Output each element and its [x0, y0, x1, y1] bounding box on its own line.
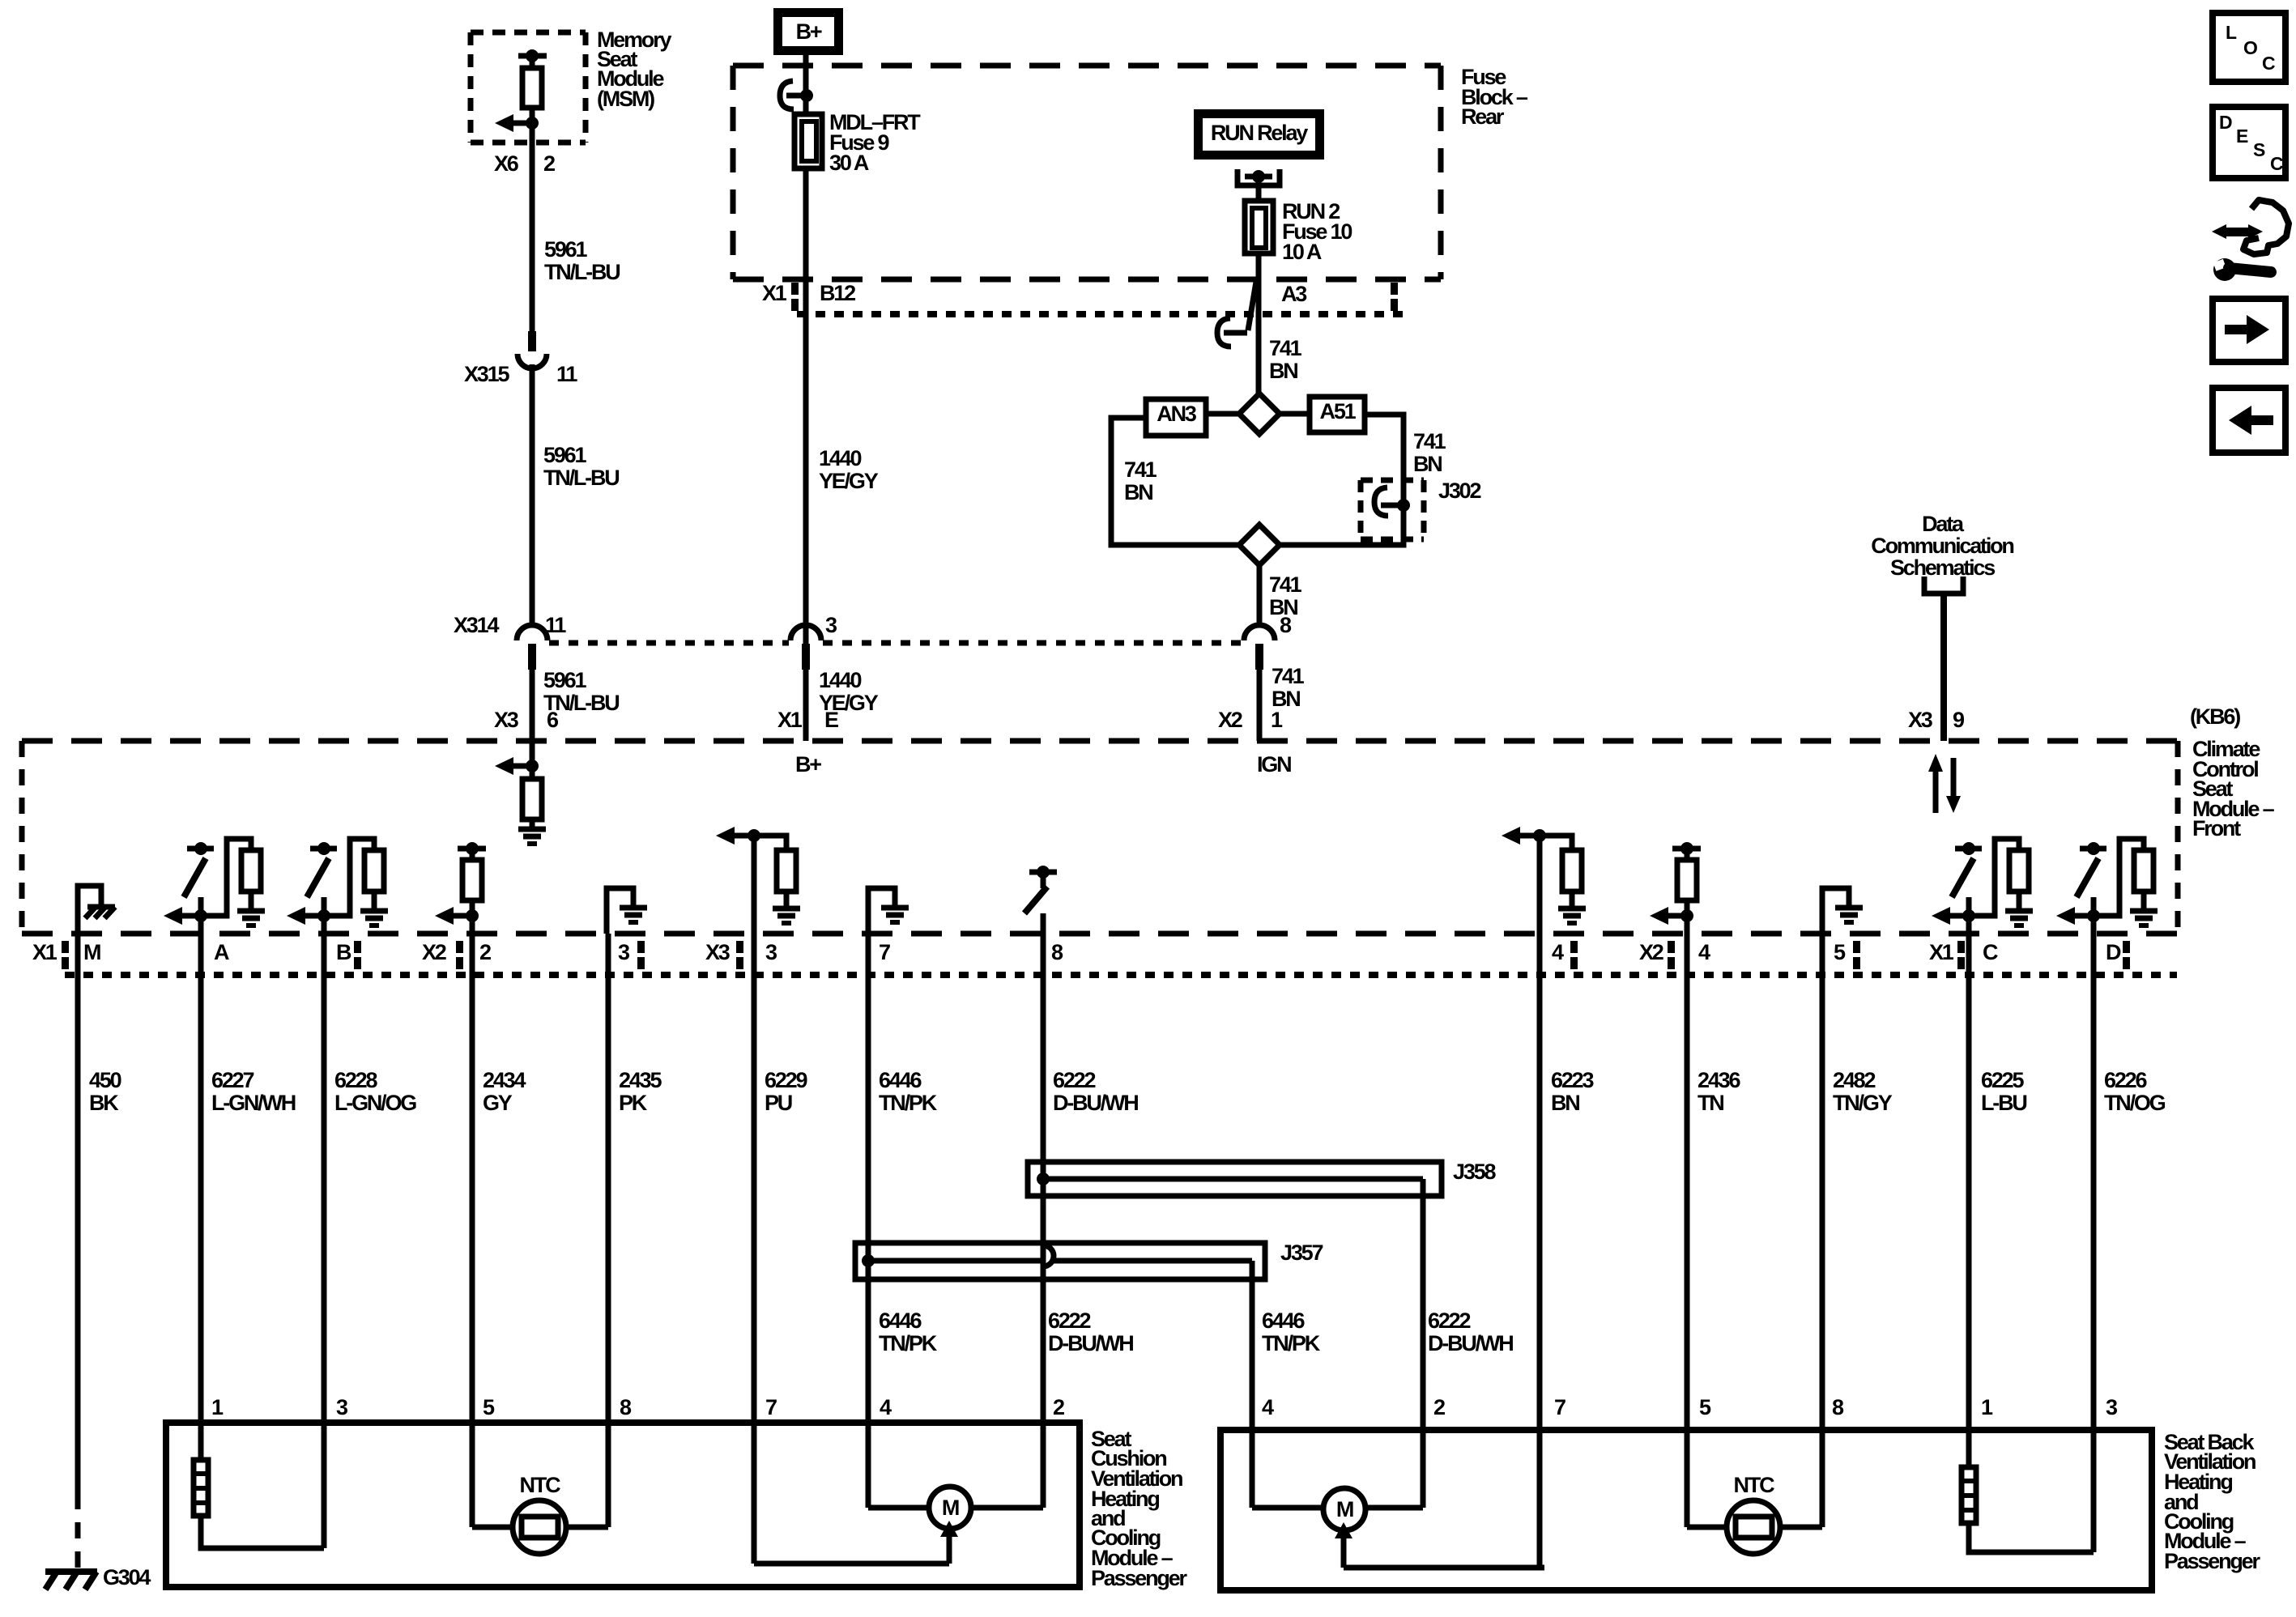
wire resistor to ground — [249, 891, 254, 910]
wire 741 BN from fuse 10 — [1256, 253, 1262, 396]
wire 741 BN to IGN — [1257, 670, 1263, 741]
svg-text:2436: 2436 — [1698, 1068, 1740, 1092]
icon DESC box — [2213, 107, 2285, 178]
wire 6226 TN/OG — [2091, 916, 2097, 1552]
svg-text:2: 2 — [543, 151, 555, 176]
wire 2434 GY — [470, 916, 475, 1527]
svg-text:GY: GY — [483, 1091, 513, 1115]
svg-text:4: 4 — [1552, 940, 1564, 964]
wire NTC right leads — [1687, 1525, 1727, 1530]
wire 6225 L-BU — [1966, 916, 1972, 1467]
svg-text:1: 1 — [1271, 708, 1283, 732]
wire signal arrow — [435, 907, 454, 925]
node junction dot — [2087, 909, 2100, 922]
svg-text:E: E — [824, 708, 838, 732]
wire 450 BK — [75, 916, 81, 1493]
svg-text:8: 8 — [1051, 940, 1063, 964]
arrow motor control right — [1341, 1537, 1347, 1568]
module Seat Cushion box — [166, 1423, 1080, 1587]
arrow serial data down — [1951, 758, 1957, 798]
svg-text:8: 8 — [1280, 613, 1292, 637]
svg-text:7: 7 — [1554, 1395, 1565, 1419]
switch blade — [184, 858, 206, 897]
svg-text:NTC: NTC — [520, 1473, 561, 1497]
svg-text:RUN Relay: RUN Relay — [1211, 121, 1308, 145]
ground internal — [518, 827, 546, 832]
svg-text:6446: 6446 — [879, 1068, 922, 1092]
motor M left — [929, 1487, 971, 1529]
svg-text:1440: 1440 — [819, 446, 861, 470]
wire diamond to A51 — [1280, 411, 1310, 417]
wire 741 BN to X314 row — [1257, 565, 1263, 625]
svg-text:2435: 2435 — [619, 1068, 662, 1092]
svg-text:6: 6 — [547, 708, 559, 732]
svg-text:C: C — [2270, 153, 2283, 174]
wire signal arrow — [2056, 907, 2075, 925]
wire 5961 TN/L-BU lower — [530, 670, 535, 766]
resistor series — [462, 860, 482, 900]
svg-text:Passenger: Passenger — [2164, 1549, 2260, 1573]
ground internal — [881, 905, 909, 911]
svg-text:O: O — [2243, 37, 2257, 58]
node junction dot — [748, 829, 760, 842]
connector X315 — [528, 331, 536, 351]
svg-text:741: 741 — [1269, 572, 1302, 597]
wire motor leads — [868, 1505, 929, 1511]
svg-text:11: 11 — [545, 613, 566, 637]
separator — [1570, 941, 1578, 953]
wire resistor to ground — [2017, 891, 2022, 910]
resistor internal B+ — [522, 779, 542, 819]
svg-text:B12: B12 — [820, 281, 855, 305]
svg-text:M: M — [1336, 1497, 1353, 1521]
svg-text:B+: B+ — [796, 19, 822, 44]
svg-text:BN: BN — [1124, 480, 1152, 504]
svg-text:741: 741 — [1269, 336, 1302, 360]
svg-text:6446: 6446 — [1262, 1308, 1305, 1333]
svg-text:7: 7 — [879, 940, 890, 964]
ground internal — [237, 908, 265, 914]
net A51 box — [1310, 397, 1365, 432]
ground chassis pin M — [78, 886, 101, 934]
wire 2436 TN — [1685, 916, 1690, 1527]
fuse RUN 2 Fuse 10 — [1245, 201, 1273, 253]
svg-text:4: 4 — [880, 1395, 892, 1419]
wire resistor stub — [470, 900, 475, 916]
svg-text:9: 9 — [1953, 708, 1965, 732]
wire resistor to ground — [2141, 891, 2147, 910]
module Seat Back box — [1220, 1430, 2152, 1590]
separator — [1957, 941, 1965, 953]
wire 5961 TN/L-BU upper — [530, 123, 535, 331]
svg-text:Front: Front — [2192, 816, 2241, 840]
ground internal — [1558, 906, 1586, 912]
sensor contact bar — [458, 846, 486, 852]
wire resistor branch — [2094, 839, 2144, 916]
wire 6222 D-BU/WH branch — [1421, 1179, 1426, 1508]
svg-text:1440: 1440 — [819, 668, 861, 692]
svg-text:11: 11 — [556, 362, 577, 386]
svg-text:D-BU/WH: D-BU/WH — [1428, 1331, 1513, 1355]
relay RUN Relay box — [1194, 109, 1324, 160]
net AN3 box — [1146, 399, 1206, 436]
switch contact at pin — [2080, 846, 2106, 852]
wire 450 BK dashed to ground — [75, 1493, 81, 1572]
separator — [1391, 283, 1398, 295]
clip hook inside J302 — [1374, 487, 1388, 516]
motor M right — [1323, 1488, 1365, 1530]
wire 6446 TN/PK branch — [1250, 1261, 1255, 1508]
wire to internal ground — [1822, 888, 1849, 934]
separator — [1853, 941, 1860, 953]
wire NTC left leads — [472, 1525, 513, 1530]
wire motor leads — [1252, 1505, 1323, 1511]
svg-text:10 A: 10 A — [1282, 240, 1322, 264]
separator — [62, 941, 69, 953]
svg-text:Rear: Rear — [1461, 104, 1505, 129]
svg-text:6446: 6446 — [879, 1308, 922, 1333]
svg-text:6222: 6222 — [1053, 1068, 1095, 1092]
svg-text:TN: TN — [1698, 1091, 1723, 1115]
wire switch stub — [1966, 897, 1972, 916]
svg-text:5: 5 — [1699, 1395, 1711, 1419]
wire heater loop right — [1969, 1523, 2094, 1552]
svg-text:PK: PK — [619, 1091, 648, 1115]
svg-text:5: 5 — [1834, 940, 1846, 964]
icon LOC box — [2213, 13, 2285, 82]
svg-text:Data: Data — [1922, 512, 1965, 536]
wire contact stub — [1685, 849, 1690, 860]
svg-text:BN: BN — [1269, 359, 1297, 383]
node J302 junction — [1397, 499, 1410, 512]
wire 1440 YE/GY from B+ — [803, 55, 809, 114]
svg-text:TN/OG: TN/OG — [2104, 1091, 2166, 1115]
svg-text:X6: X6 — [494, 151, 519, 176]
bracket data communication — [1924, 577, 1963, 594]
arrow motor control left — [947, 1535, 952, 1564]
svg-text:S: S — [2253, 139, 2265, 160]
svg-text:D-BU/WH: D-BU/WH — [1048, 1331, 1133, 1355]
ground G304 — [45, 1568, 97, 1575]
wire 6446 TN/PK — [866, 934, 871, 1508]
wire 6228 L-GN/OG — [322, 916, 327, 1548]
wire resistor to ground — [530, 819, 535, 829]
svg-text:30 A: 30 A — [829, 151, 869, 175]
svg-text:6229: 6229 — [765, 1068, 807, 1092]
svg-text:G304: G304 — [103, 1565, 151, 1589]
svg-text:3: 3 — [2106, 1395, 2118, 1419]
svg-text:NTC: NTC — [1734, 1473, 1775, 1497]
svg-text:5961: 5961 — [543, 668, 586, 692]
wire resistor branch — [324, 839, 374, 916]
separator — [2123, 941, 2130, 953]
svg-text:A: A — [214, 940, 229, 964]
svg-text:B: B — [336, 940, 351, 964]
svg-text:1: 1 — [1981, 1395, 1993, 1419]
module MSM dashed box — [471, 30, 586, 36]
svg-text:M: M — [942, 1496, 959, 1520]
node MSM junction — [526, 117, 539, 130]
svg-text:5961: 5961 — [544, 237, 587, 262]
svg-text:5: 5 — [483, 1395, 495, 1419]
svg-text:6223: 6223 — [1551, 1068, 1594, 1092]
svg-text:8: 8 — [620, 1395, 632, 1419]
svg-text:7: 7 — [765, 1395, 777, 1419]
svg-text:AN3: AN3 — [1157, 402, 1197, 426]
wire MSM resistor to node — [530, 108, 535, 123]
switch blade — [1952, 858, 1974, 897]
wire inside J357 — [868, 1258, 1043, 1264]
svg-text:8: 8 — [1832, 1395, 1844, 1419]
connector row B12 A3 dotted line — [797, 311, 1404, 317]
relay output cup — [1237, 169, 1280, 185]
fuse block rear dashed box — [733, 63, 1441, 69]
node junction dot — [466, 909, 479, 922]
svg-text:2: 2 — [1053, 1395, 1064, 1419]
svg-text:D-BU/WH: D-BU/WH — [1053, 1091, 1138, 1115]
svg-text:BK: BK — [89, 1091, 119, 1115]
wire 741 BN right loop — [1276, 415, 1404, 545]
svg-text:Communication: Communication — [1871, 534, 2013, 558]
wire resistor branch — [201, 839, 251, 916]
svg-text:J302: J302 — [1438, 479, 1480, 503]
splice J302 dashed box — [1361, 478, 1424, 483]
svg-text:1: 1 — [211, 1395, 224, 1419]
svg-text:D: D — [2219, 112, 2232, 133]
power B+ box — [773, 8, 843, 55]
switch contact at pin — [310, 846, 337, 852]
svg-text:J358: J358 — [1453, 1160, 1496, 1184]
svg-text:TN/PK: TN/PK — [879, 1331, 938, 1355]
wire 1440 YE/GY below fuse — [803, 168, 809, 741]
svg-text:X3: X3 — [705, 940, 731, 964]
wire 6227 L-GN/WH — [198, 916, 204, 1460]
svg-text:X1: X1 — [1929, 940, 1954, 964]
wire switch stub — [198, 897, 204, 916]
wire 2482 TN/GY — [1820, 934, 1825, 1527]
svg-text:Passenger: Passenger — [1091, 1566, 1187, 1590]
splice diamond upper — [1239, 394, 1280, 434]
wire 2435 PK — [606, 934, 611, 1527]
clip crimp at A3 — [1248, 277, 1257, 330]
svg-text:E: E — [2236, 126, 2248, 147]
wire contact stub — [470, 849, 475, 860]
separator — [637, 941, 645, 953]
wire MSM stub — [530, 56, 535, 68]
icon next arrow box — [2213, 299, 2285, 362]
svg-text:3: 3 — [618, 940, 630, 964]
ground internal — [2005, 908, 2033, 914]
resistor pull-up — [2009, 850, 2029, 891]
heater element right — [1962, 1467, 1976, 1523]
svg-text:A51: A51 — [1320, 399, 1357, 423]
switch blade — [2077, 858, 2098, 897]
svg-text:2: 2 — [1433, 1395, 1445, 1419]
icon back arrow box — [2213, 388, 2285, 453]
sensor contact bar — [1672, 846, 1701, 852]
svg-text:6226: 6226 — [2104, 1068, 2147, 1092]
switch pin 8 structure — [1029, 870, 1057, 875]
svg-text:X315: X315 — [464, 362, 509, 386]
svg-text:2482: 2482 — [1833, 1068, 1875, 1092]
svg-text:X1: X1 — [777, 708, 803, 732]
wire signal arrow — [1502, 827, 1520, 845]
switch contact at pin — [187, 846, 214, 852]
svg-text:IGN: IGN — [1257, 752, 1291, 777]
wire inside J358 — [1043, 1177, 1423, 1182]
wire serial data — [1940, 594, 1947, 741]
wire hop over 6222 — [1043, 1245, 1054, 1266]
svg-text:X2: X2 — [422, 940, 446, 964]
svg-text:3: 3 — [336, 1395, 348, 1419]
svg-text:X2: X2 — [1218, 708, 1242, 732]
svg-text:2434: 2434 — [483, 1068, 526, 1092]
svg-text:4: 4 — [1262, 1395, 1274, 1419]
node junction dot — [1680, 909, 1693, 922]
wire switch stub — [2091, 897, 2097, 916]
wire 6223 BN — [1537, 836, 1543, 1568]
wire to internal ground — [607, 888, 633, 934]
wire 741 BN left loop — [1111, 418, 1242, 545]
node relay contact — [1245, 174, 1272, 180]
wire motor feed left — [754, 1561, 949, 1567]
separator — [354, 941, 361, 953]
svg-text:3: 3 — [765, 940, 777, 964]
svg-text:X2: X2 — [1639, 940, 1663, 964]
wire resistor branch — [1969, 839, 2019, 916]
svg-text:(MSM): (MSM) — [597, 87, 654, 111]
switch blade — [307, 858, 329, 897]
svg-text:YE/GY: YE/GY — [819, 469, 879, 493]
connector X314 — [517, 625, 547, 640]
svg-text:6228: 6228 — [334, 1068, 377, 1092]
wire 6229 PU — [752, 836, 757, 1564]
icon adjust hand and wrench — [2212, 224, 2226, 239]
svg-text:450: 450 — [89, 1068, 121, 1092]
wire signal arrow — [287, 907, 305, 925]
ground internal — [1835, 905, 1863, 911]
wire MSM arrow — [495, 114, 513, 132]
resistor internal — [777, 850, 796, 891]
wire to internal resistor — [530, 766, 535, 779]
svg-text:BN: BN — [1413, 452, 1442, 476]
svg-text:M: M — [83, 940, 100, 964]
node J357 junction — [862, 1254, 875, 1267]
svg-text:A3: A3 — [1281, 282, 1307, 306]
svg-text:X1: X1 — [762, 281, 787, 305]
fuse MDL-FRT Fuse 9 — [794, 114, 822, 168]
wire switch stub — [322, 897, 327, 916]
ground internal — [2130, 908, 2158, 914]
svg-text:TN/PK: TN/PK — [879, 1091, 938, 1115]
separator — [791, 283, 799, 295]
svg-text:C: C — [1983, 940, 1998, 964]
node junction dot — [1962, 909, 1975, 922]
wire resistor to ground — [784, 891, 790, 908]
wire resistor branch — [754, 836, 786, 850]
svg-text:BN: BN — [1551, 1091, 1579, 1115]
splice diamond lower — [1239, 525, 1280, 565]
node junction dot — [317, 909, 330, 922]
svg-text:X3: X3 — [494, 708, 519, 732]
wire 6222 D-BU/WH — [1041, 913, 1046, 1508]
svg-text:6227: 6227 — [211, 1068, 253, 1092]
svg-text:L-GN/WH: L-GN/WH — [211, 1091, 296, 1115]
svg-text:3: 3 — [825, 613, 837, 637]
clip hook at B+ junction — [780, 81, 794, 109]
svg-text:X3: X3 — [1908, 708, 1933, 732]
wire diamond to AN3 — [1206, 411, 1239, 417]
wire 5961 TN/L-BU middle — [530, 364, 535, 625]
svg-text:741: 741 — [1413, 429, 1446, 453]
svg-text:B+: B+ — [795, 752, 821, 777]
svg-text:741: 741 — [1272, 664, 1305, 688]
svg-text:5961: 5961 — [543, 443, 586, 467]
resistor pull-up — [241, 850, 261, 891]
svg-text:J357: J357 — [1280, 1240, 1323, 1265]
svg-text:TN/GY: TN/GY — [1833, 1091, 1893, 1115]
ground internal — [360, 908, 388, 914]
svg-text:TN/PK: TN/PK — [1262, 1331, 1321, 1355]
wire resistor to ground — [1570, 891, 1575, 908]
wire B+ internal node — [526, 760, 539, 772]
ground internal — [773, 906, 800, 912]
svg-text:X314: X314 — [454, 613, 499, 637]
heater element left — [194, 1460, 208, 1516]
wire to internal ground — [868, 888, 895, 934]
svg-text:PU: PU — [765, 1091, 792, 1115]
svg-text:TN/L-BU: TN/L-BU — [544, 260, 620, 284]
node junction dot — [194, 909, 207, 922]
splice J358 box — [1028, 1162, 1442, 1196]
resistor series — [1677, 860, 1697, 900]
svg-text:TN/L-BU: TN/L-BU — [543, 466, 619, 490]
wire resistor stub — [1685, 900, 1690, 916]
svg-text:L-BU: L-BU — [1981, 1091, 2026, 1115]
separator — [1668, 941, 1675, 953]
svg-text:(KB6): (KB6) — [2190, 704, 2240, 729]
connector row bottom dotted line — [65, 972, 2177, 978]
svg-text:6222: 6222 — [1048, 1308, 1090, 1333]
node B+ junction — [800, 89, 813, 102]
svg-text:2: 2 — [479, 940, 491, 964]
arrow serial data up — [1933, 769, 1939, 813]
wire signal arrow — [1932, 907, 1950, 925]
svg-text:4: 4 — [1698, 940, 1710, 964]
resistor pull-up — [2134, 850, 2153, 891]
switch contact at pin — [1955, 846, 1982, 852]
wire motor feed right — [1344, 1565, 1544, 1571]
ground internal — [620, 905, 647, 911]
svg-text:6225: 6225 — [1981, 1068, 2024, 1092]
resistor MSM internal — [522, 68, 542, 108]
svg-text:741: 741 — [1124, 457, 1157, 482]
module Climate Control Seat Module dashed box — [22, 738, 2178, 744]
svg-text:6222: 6222 — [1428, 1308, 1470, 1333]
node J358 junction — [1037, 1172, 1050, 1185]
svg-text:C: C — [2262, 53, 2275, 74]
wire heater loop — [201, 1516, 324, 1548]
wire signal arrow — [164, 907, 182, 925]
wire relay to fuse 10 — [1256, 180, 1262, 201]
wire signal arrow — [1650, 907, 1668, 925]
connector 1440 row pin 3 — [790, 625, 821, 640]
svg-text:X1: X1 — [32, 940, 58, 964]
resistor pull-up — [364, 850, 384, 891]
svg-text:Schematics: Schematics — [1890, 555, 1995, 580]
svg-text:D: D — [2106, 940, 2121, 964]
splice J357 box — [855, 1243, 1265, 1279]
